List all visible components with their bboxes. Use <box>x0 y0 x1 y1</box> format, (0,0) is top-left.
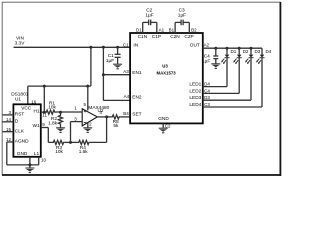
resistor R5 5k <box>112 115 121 129</box>
svg-text:C2P: C2P <box>184 34 193 40</box>
svg-text:LED1: LED1 <box>189 81 201 87</box>
junction VIN to C1 <box>116 46 119 49</box>
svg-text:L1: L1 <box>34 151 40 157</box>
svg-text:EN2: EN2 <box>132 95 142 101</box>
capacitor C3 1uF <box>175 7 189 25</box>
wire op-amp output to SET <box>97 116 111 118</box>
wire bottom feedback run <box>48 141 52 143</box>
svg-text:1.8k: 1.8k <box>48 120 58 126</box>
pin 15 CLK wire <box>3 127 25 135</box>
svg-text:GND: GND <box>17 151 28 157</box>
svg-text:1µF: 1µF <box>178 12 186 18</box>
svg-text:C4: C4 <box>204 88 210 93</box>
wire EN branch vertical <box>102 47 104 100</box>
LED D3 <box>245 47 261 100</box>
svg-text:A2: A2 <box>204 42 210 47</box>
pin C3 LED4 wire <box>189 102 262 108</box>
svg-text:CLK: CLK <box>15 128 25 134</box>
IC U1 DS1801 body <box>11 91 41 156</box>
pin A4 EN2 labels <box>124 94 142 101</box>
svg-text:C3: C3 <box>204 102 210 107</box>
junction R2 tap <box>59 111 62 114</box>
svg-text:C2N: C2N <box>170 34 180 40</box>
svg-text:B4: B4 <box>123 111 129 116</box>
junction feedback node <box>69 141 72 144</box>
ground under U1 <box>25 168 34 173</box>
pin 11 H1 wire <box>34 109 48 118</box>
wire EN1 <box>103 74 130 76</box>
svg-text:16: 16 <box>31 99 37 104</box>
svg-text:SET: SET <box>132 112 141 118</box>
svg-text:VIN: VIN <box>16 35 24 41</box>
capacitor C1 1uF <box>106 47 121 64</box>
svg-text:AGND: AGND <box>15 139 29 145</box>
pin 9 W1 wire <box>32 122 48 142</box>
resistor R1 10k <box>45 101 56 115</box>
wire op-amp supply pin 5 <box>87 86 89 110</box>
LED D4 <box>256 48 272 107</box>
wire R1 to op-amp input 1 <box>56 111 82 113</box>
op-amp U2 MAX4480 <box>82 105 109 126</box>
svg-text:GND: GND <box>158 116 169 122</box>
resistor R3 10k <box>53 140 65 155</box>
svg-text:C1: C1 <box>123 42 129 47</box>
pin D4 LED1 wire <box>189 81 227 87</box>
LED D2 <box>233 47 249 94</box>
wire EN2 <box>103 99 130 101</box>
svg-text:MAX1573: MAX1573 <box>157 71 177 76</box>
junction VCC to R1/H1 <box>43 85 46 88</box>
svg-text:U1: U1 <box>15 96 21 102</box>
svg-text:EN1: EN1 <box>132 70 142 76</box>
svg-text:RST: RST <box>15 112 25 118</box>
ground under C4 <box>211 64 220 69</box>
pin C1 IN labels <box>123 42 139 48</box>
pin 14 D wire <box>3 117 19 125</box>
ground under C1 <box>113 64 122 69</box>
svg-text:OUT: OUT <box>190 42 200 48</box>
svg-text:3.3V: 3.3V <box>15 41 26 47</box>
svg-text:5k: 5k <box>113 123 119 129</box>
capacitor C4 1uF <box>202 48 218 64</box>
pin D3 LED3 wire <box>189 95 251 101</box>
pin B1 C2N stub <box>169 22 181 40</box>
node VIN label <box>15 35 26 46</box>
svg-text:D2: D2 <box>243 49 249 54</box>
svg-text:B2: B2 <box>191 27 197 32</box>
svg-text:U3: U3 <box>162 64 168 69</box>
svg-text:14: 14 <box>6 117 12 122</box>
pin 3 RST wire <box>3 110 25 118</box>
svg-text:15: 15 <box>6 127 12 132</box>
pin A1 C1P stub <box>152 22 165 40</box>
svg-text:D: D <box>15 119 19 125</box>
pin B4 SET labels <box>123 111 141 118</box>
resistor R2 1.8k <box>48 112 63 128</box>
svg-text:1µF: 1µF <box>106 58 114 64</box>
svg-text:D4: D4 <box>204 81 210 86</box>
ground under R2 <box>56 128 65 133</box>
wire VCC distribution <box>28 47 91 104</box>
junction VIN to EN branch <box>102 46 105 49</box>
resistor R4 1.6k <box>78 140 90 155</box>
IC U3 MAX1573 body <box>130 33 203 123</box>
pin A3 EN1 labels <box>123 69 142 76</box>
svg-text:A1: A1 <box>159 27 165 32</box>
pin 2 stub of U2 <box>88 121 92 128</box>
svg-text:H1: H1 <box>34 109 40 115</box>
svg-text:1.6k: 1.6k <box>79 149 89 155</box>
wire R3 to node <box>64 141 78 143</box>
svg-text:D3: D3 <box>255 49 261 54</box>
ground under U2 <box>83 128 92 133</box>
pin 12 AGND wire <box>6 137 29 145</box>
wire R5 to SET pin <box>120 116 130 118</box>
svg-text:A3: A3 <box>123 69 129 74</box>
svg-text:D4: D4 <box>266 49 272 54</box>
svg-text:B1: B1 <box>169 27 175 32</box>
figure border frame <box>2 2 281 176</box>
svg-text:D3: D3 <box>204 95 210 100</box>
pin D1 C1N stub <box>136 22 148 40</box>
svg-text:A4: A4 <box>124 94 130 99</box>
svg-text:10: 10 <box>41 158 47 163</box>
svg-text:1µF: 1µF <box>145 12 153 18</box>
wire AGND return to ground <box>7 142 39 165</box>
svg-text:D1: D1 <box>136 27 142 32</box>
capacitor C2 1uF <box>143 7 157 25</box>
svg-text:W1: W1 <box>32 123 39 129</box>
pin B2 C2P stub <box>184 22 197 40</box>
junction EN1 <box>102 73 105 76</box>
junction OUT to C4 <box>214 47 217 50</box>
svg-text:VCC: VCC <box>21 106 32 112</box>
svg-text:C1N: C1N <box>138 34 148 40</box>
wire VCC drop to H1 node <box>43 86 45 112</box>
LED D1 <box>221 47 237 87</box>
svg-text:LED4: LED4 <box>189 102 201 108</box>
pin A2 OUT labels <box>190 42 210 48</box>
wire node up to op-amp input 3 <box>71 122 83 143</box>
pin GND C2 stub of U3 <box>158 116 171 129</box>
junction at U1 ground node <box>28 163 31 166</box>
svg-text:D1: D1 <box>231 49 237 54</box>
svg-text:IN: IN <box>133 42 138 48</box>
wire OUT rail <box>203 47 262 49</box>
wire R4 to output riser <box>90 117 107 142</box>
junction VIN to VCC branch <box>89 46 92 49</box>
svg-text:12: 12 <box>6 137 12 142</box>
svg-text:10k: 10k <box>55 149 63 155</box>
svg-text:1µF: 1µF <box>202 58 210 64</box>
pin 10 L1 stub of U1 <box>34 151 47 165</box>
svg-text:LED3: LED3 <box>189 95 201 101</box>
svg-text:C1P: C1P <box>152 34 161 40</box>
junction VCC to op-amp supply <box>86 85 89 88</box>
wire VIN rail <box>14 46 131 48</box>
ground under U3 <box>159 128 168 133</box>
svg-text:10k: 10k <box>48 105 56 111</box>
junction output / R4 <box>105 115 108 118</box>
svg-text:C4: C4 <box>204 53 210 59</box>
junction H1 / VCC <box>43 111 46 114</box>
pin C4 LED2 wire <box>189 88 239 94</box>
svg-text:LED2: LED2 <box>189 88 201 94</box>
pin GND stub of U1 <box>17 151 30 168</box>
